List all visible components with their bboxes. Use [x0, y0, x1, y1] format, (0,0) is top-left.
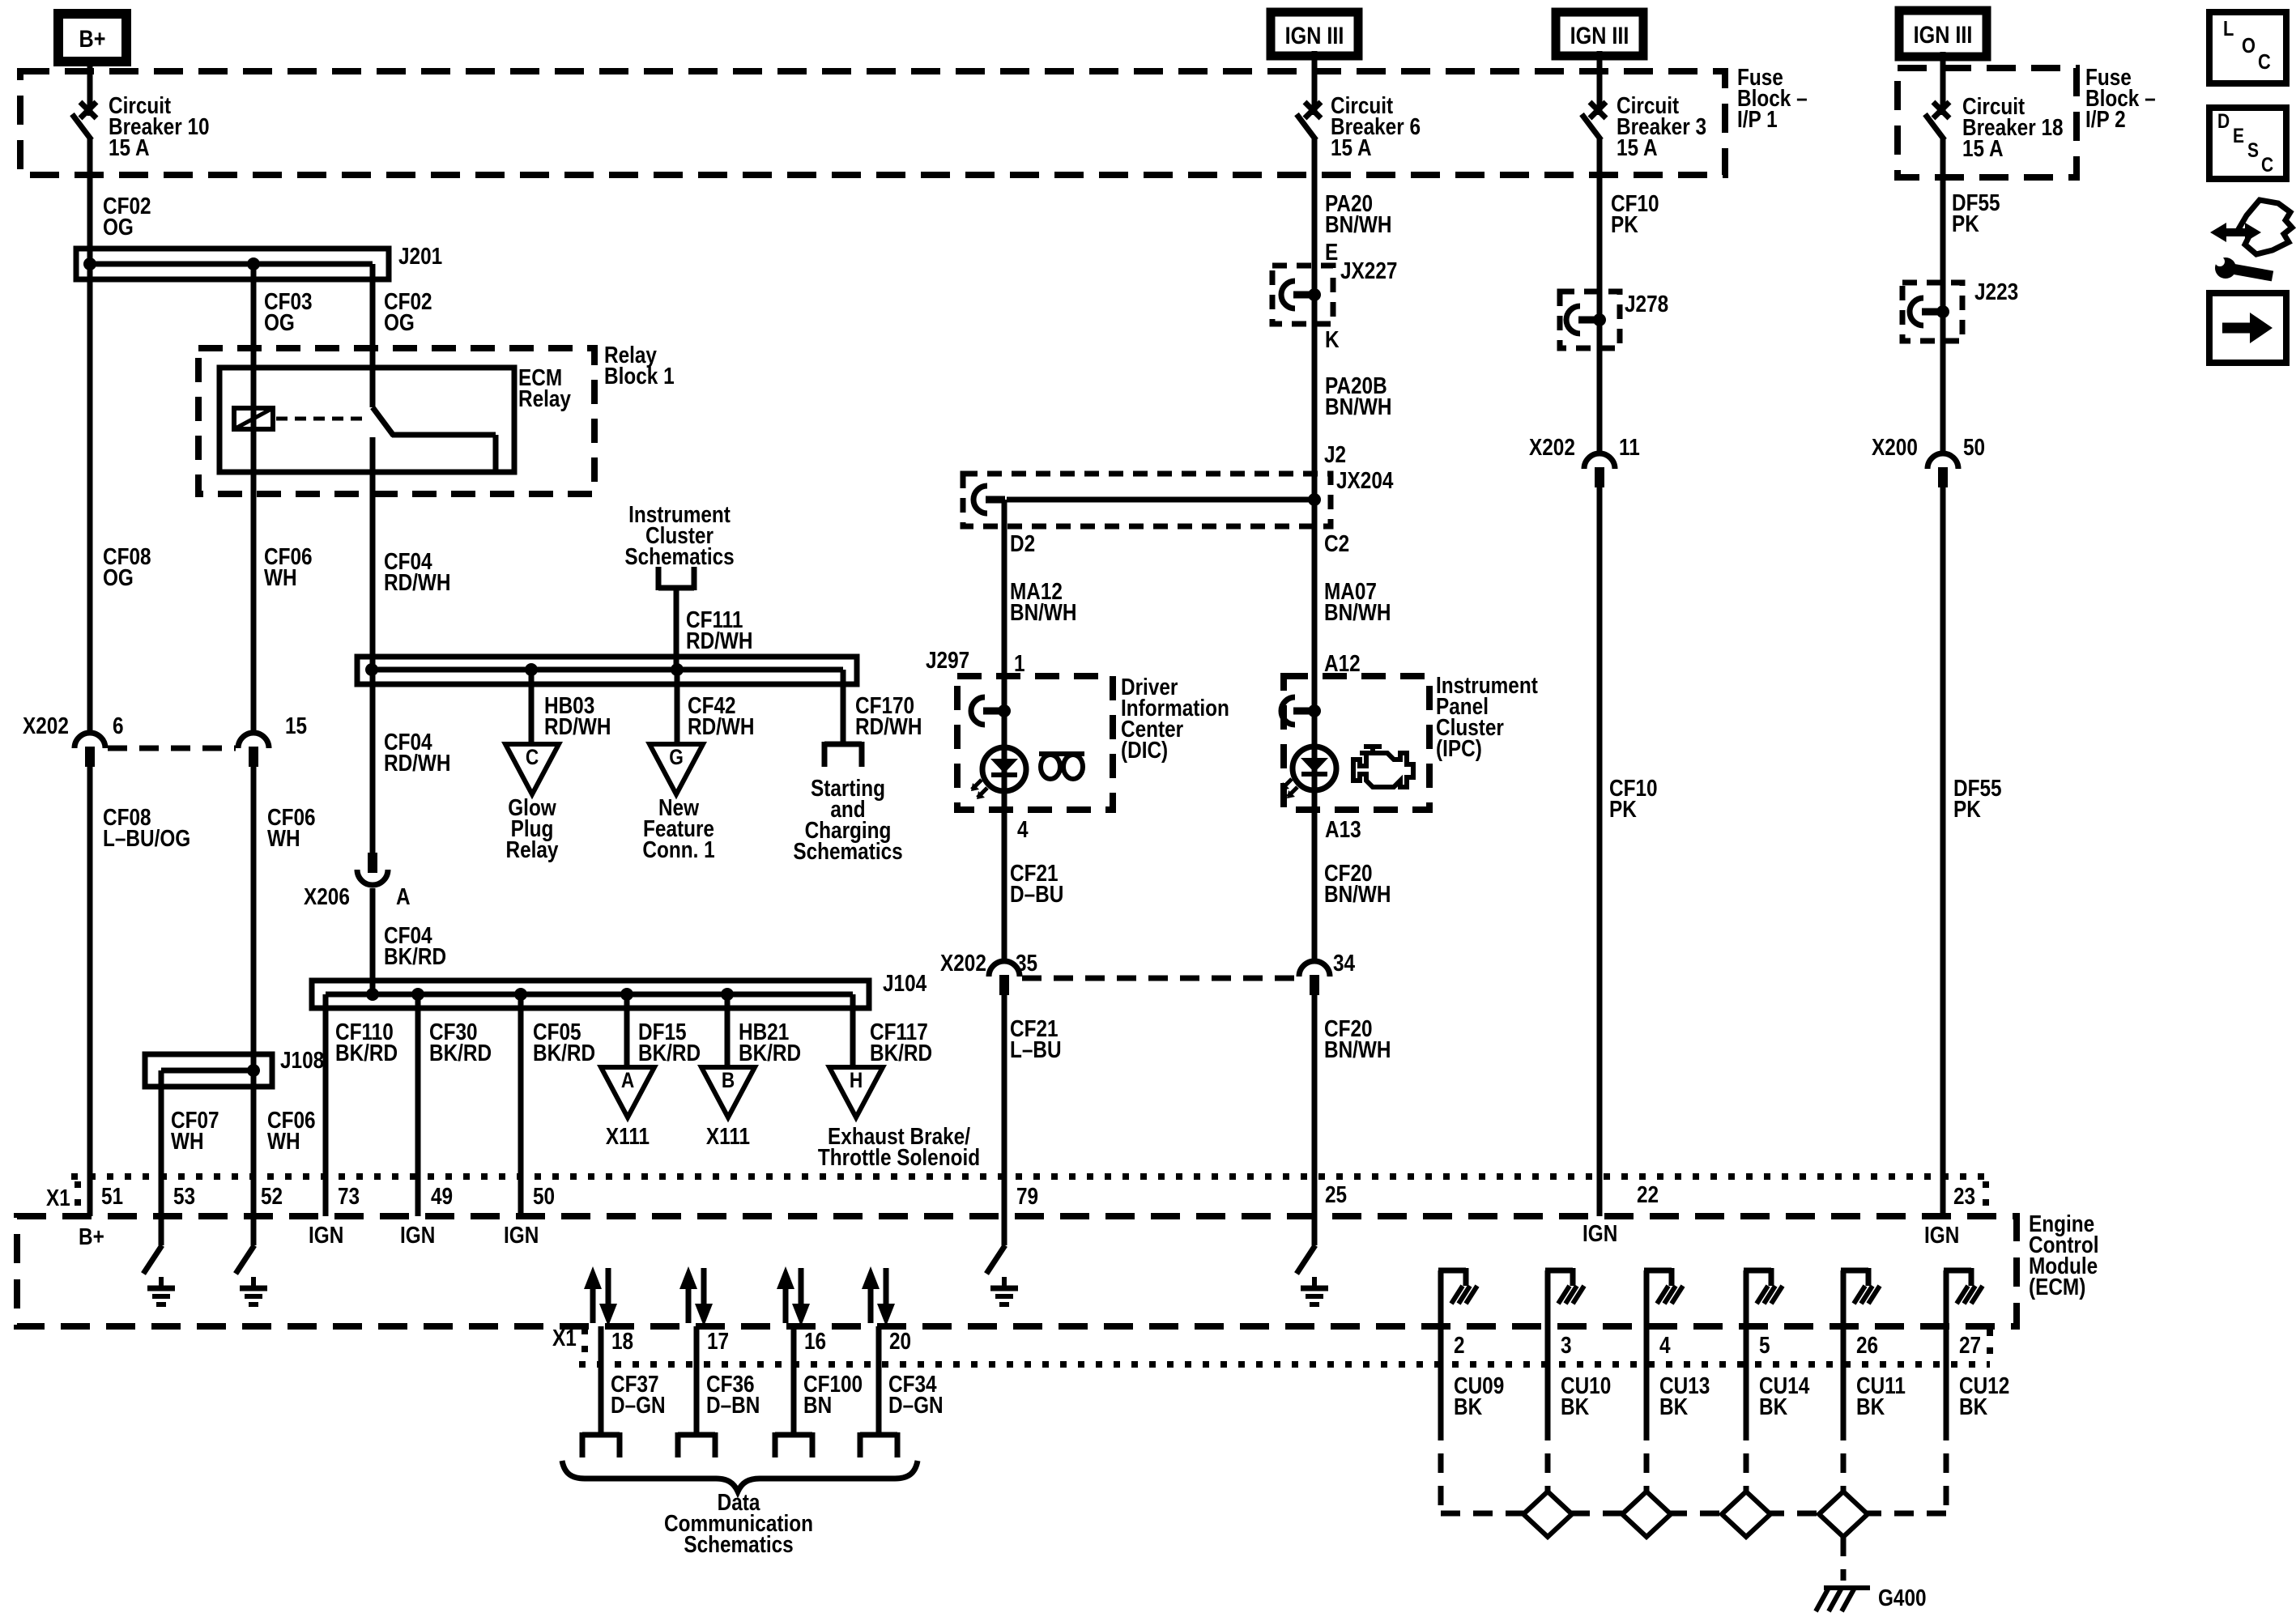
svg-text:J201: J201	[398, 243, 442, 269]
svg-text:X202: X202	[23, 713, 69, 738]
svg-text:18: 18	[611, 1328, 633, 1354]
connector JX204 left end	[973, 486, 1005, 513]
chassis ground pin 3	[1545, 1268, 1584, 1326]
svg-text:BK: BK	[1561, 1394, 1590, 1419]
relay coil box	[234, 408, 273, 429]
svg-text:79: 79	[1016, 1183, 1038, 1209]
svg-text:X111: X111	[606, 1123, 650, 1149]
junction box J201	[76, 249, 389, 279]
svg-text:IGN: IGN	[309, 1222, 343, 1248]
dotted jog X1 bottom right	[1987, 1330, 1993, 1361]
svg-text:A: A	[621, 1068, 634, 1092]
junction box J297	[357, 657, 857, 684]
dashed splice bus	[1441, 1511, 1946, 1517]
dashed link X202 6-15	[108, 746, 236, 751]
junction box JX204 dashed	[963, 474, 1331, 526]
wire CF10 breaker 3 to X202-11	[1597, 138, 1603, 453]
svg-text:BK: BK	[1454, 1394, 1483, 1419]
LED indicator DIC	[971, 747, 1026, 799]
circuit breaker CB3	[1582, 102, 1606, 140]
svg-text:(ECM): (ECM)	[2029, 1274, 2085, 1300]
dashed wire CU13	[1644, 1421, 1650, 1495]
svg-text:IGN III: IGN III	[1914, 21, 1973, 49]
svg-text:WH: WH	[171, 1128, 204, 1154]
svg-text:RD/WH: RD/WH	[855, 713, 922, 739]
JX204 bus wire	[1007, 497, 1314, 503]
svg-text:L: L	[2223, 17, 2234, 40]
dashed wire CU10	[1545, 1421, 1551, 1495]
wire CF08 L-BU/OG to ECM pin 51	[87, 767, 93, 1216]
junction dot J108-CF06	[247, 1064, 260, 1077]
svg-text:OG: OG	[384, 309, 415, 335]
svg-text:15: 15	[285, 713, 307, 738]
relay switch output notch horizontal	[392, 432, 496, 438]
J297 bus wire	[372, 667, 843, 673]
svg-text:4: 4	[1659, 1332, 1671, 1358]
wire CF30 J104 to ECM pin 49	[415, 994, 421, 1216]
svg-text:X202: X202	[1529, 434, 1575, 460]
bidirectional arrows pin 16	[777, 1266, 810, 1326]
wire DF55 breaker 18 to X200-50	[1940, 138, 1946, 453]
wire CF170 J297 drop	[841, 670, 846, 744]
svg-text:J2: J2	[1324, 441, 1346, 467]
svg-text:IGN III: IGN III	[1285, 22, 1344, 49]
terminator CF34	[860, 1432, 897, 1457]
chassis ground pin 5	[1744, 1268, 1783, 1326]
svg-text:X1: X1	[46, 1185, 70, 1211]
svg-text:26: 26	[1856, 1332, 1878, 1358]
svg-text:BN: BN	[803, 1392, 832, 1418]
svg-text:3: 3	[1561, 1332, 1572, 1358]
svg-text:15 A: 15 A	[1962, 135, 2004, 161]
svg-text:WH: WH	[267, 1128, 300, 1154]
nav icon hand with wrench	[2210, 200, 2292, 279]
svg-text:H: H	[850, 1068, 863, 1092]
circuit breaker CB6	[1297, 102, 1321, 140]
ground switch and ground pin 25	[1297, 1216, 1328, 1304]
svg-text:PK: PK	[1609, 796, 1637, 822]
junction dot J297-HB03	[525, 663, 538, 676]
junction dot J104-DF15	[620, 988, 633, 1001]
svg-text:(DIC): (DIC)	[1121, 737, 1168, 763]
dotted jog X1 bottom left	[581, 1328, 588, 1361]
svg-text:20: 20	[889, 1328, 911, 1354]
brace data communication	[562, 1461, 918, 1491]
power symbol B+ box	[58, 14, 126, 62]
svg-text:J108: J108	[280, 1047, 324, 1073]
connector triangle A X111	[601, 1067, 654, 1117]
dashed wire CU11	[1841, 1421, 1847, 1495]
bidirectional arrows pin 20	[862, 1266, 895, 1326]
junction dot J104-HB21	[721, 988, 734, 1001]
power symbol IGN III box 3	[1899, 11, 1987, 57]
wire HB03 J297 to triangle C	[529, 670, 535, 744]
dotted jog X1 right	[1983, 1181, 1989, 1213]
svg-text:L–BU: L–BU	[1010, 1036, 1062, 1062]
splice diamond 1	[1523, 1491, 1572, 1537]
svg-text:PK: PK	[1611, 211, 1638, 237]
wire B+ to breaker 10	[87, 57, 93, 116]
svg-text:Schematics: Schematics	[624, 543, 734, 569]
dashed wire CU12	[1944, 1421, 1949, 1513]
chassis ground pin 27	[1944, 1268, 1983, 1326]
connector triangle C glow plug relay	[505, 744, 559, 794]
wire PA20 breaker 6 to X202-34	[1312, 138, 1318, 962]
wire CF111 to J297	[674, 588, 679, 670]
svg-text:D2: D2	[1010, 530, 1035, 556]
svg-text:K: K	[1325, 326, 1340, 352]
relay switch blade	[373, 407, 394, 436]
svg-text:J297: J297	[926, 647, 969, 673]
dashed link X202 35-34	[1022, 976, 1297, 981]
svg-text:53: 53	[173, 1183, 195, 1209]
svg-text:Block 1: Block 1	[604, 363, 675, 389]
svg-text:BN/WH: BN/WH	[1324, 881, 1391, 907]
junction dot J104-CF30	[411, 988, 424, 1001]
wire CF10 to ECM pin 22	[1597, 487, 1603, 1216]
LED indicator IPC	[1281, 747, 1336, 798]
svg-text:11: 11	[1619, 434, 1640, 460]
svg-text:D–GN: D–GN	[611, 1392, 666, 1418]
terminator CF37	[582, 1432, 620, 1457]
connector DIC pin 1	[971, 697, 1011, 725]
svg-text:IGN: IGN	[504, 1222, 539, 1248]
svg-text:16: 16	[804, 1328, 826, 1354]
junction box J223 dashed	[1902, 283, 1962, 341]
connector triangle B X111	[701, 1067, 755, 1117]
svg-text:IGN III: IGN III	[1570, 22, 1629, 49]
svg-text:52: 52	[261, 1183, 283, 1209]
wire IGN III to breaker 3	[1597, 51, 1603, 115]
svg-text:Schematics: Schematics	[793, 838, 902, 864]
chassis ground pin 26	[1841, 1268, 1880, 1326]
wire CF07 J108 to ECM pin 53	[159, 1070, 164, 1216]
connector X200 pin 50	[1928, 453, 1958, 487]
wire CF05 J104 to ECM pin 50	[518, 994, 524, 1216]
wire CF117 J104 to triangle H	[850, 994, 856, 1067]
svg-text:BN/WH: BN/WH	[1325, 211, 1391, 237]
relay switch output notch vertical	[493, 435, 499, 472]
svg-text:(IPC): (IPC)	[1436, 735, 1482, 761]
svg-text:BK: BK	[1659, 1394, 1689, 1419]
connector IPC pin A12	[1281, 697, 1321, 725]
dashed wire CU09	[1438, 1421, 1444, 1513]
svg-text:C: C	[526, 745, 539, 769]
bidirectional arrows pin 17	[679, 1266, 713, 1326]
svg-text:D–BN: D–BN	[706, 1392, 760, 1418]
svg-text:15 A: 15 A	[1617, 134, 1658, 160]
svg-text:73: 73	[338, 1183, 360, 1209]
junction box J278 dashed	[1560, 291, 1620, 348]
svg-text:X200: X200	[1872, 434, 1918, 460]
coil icon DIC	[1039, 754, 1084, 779]
circuit breaker CB10	[72, 102, 96, 140]
svg-text:1: 1	[1014, 650, 1025, 676]
ground G400	[1816, 1588, 1870, 1611]
svg-text:PK: PK	[1953, 796, 1981, 822]
wire IGN III to breaker 6	[1312, 51, 1318, 115]
J108 bus wire	[161, 1068, 253, 1074]
wire CF04 BK/RD X206 to J104	[370, 888, 376, 994]
connector X206 pin A	[357, 853, 388, 885]
nav arrow	[2222, 313, 2273, 343]
svg-text:A12: A12	[1324, 650, 1361, 676]
svg-text:C: C	[2258, 50, 2271, 74]
chassis ground pin 2	[1438, 1268, 1477, 1326]
svg-text:OG: OG	[264, 309, 295, 335]
svg-text:BK: BK	[1759, 1394, 1788, 1419]
connector triangle G new feature	[650, 744, 703, 794]
fuse block I/P 2 dashed box	[1898, 68, 2077, 177]
svg-text:G400: G400	[1878, 1585, 1927, 1611]
svg-text:22: 22	[1637, 1181, 1659, 1207]
wire DF55 to ECM pin 23	[1940, 487, 1946, 1216]
svg-text:B+: B+	[79, 1223, 104, 1249]
connector X202 pin 6	[75, 733, 105, 767]
svg-text:4: 4	[1017, 816, 1029, 842]
junction dot J104-CF04	[366, 988, 379, 1001]
svg-text:L–BU/OG: L–BU/OG	[103, 825, 190, 851]
svg-text:Schematics: Schematics	[684, 1531, 793, 1557]
nav icon LOC box	[2209, 12, 2286, 83]
terminator CF100	[775, 1432, 812, 1457]
wire CU09 pin 2	[1438, 1326, 1444, 1421]
svg-text:BK: BK	[1856, 1394, 1885, 1419]
svg-text:WH: WH	[267, 825, 300, 851]
svg-text:O: O	[2242, 34, 2256, 57]
fuse block I/P 1 dashed box	[20, 71, 1725, 175]
wire CF04 through J297	[370, 657, 376, 684]
wire HB21 J104 to triangle B	[725, 994, 731, 1067]
wire CF36 pin 17	[694, 1326, 700, 1435]
wire CF34 pin 20	[876, 1326, 882, 1435]
svg-text:A13: A13	[1325, 816, 1361, 842]
connector JX227	[1281, 281, 1321, 309]
svg-text:E: E	[1325, 239, 1338, 265]
wire CF100 pin 16	[791, 1326, 797, 1435]
junction box J108	[145, 1054, 272, 1087]
svg-text:BK/RD: BK/RD	[533, 1040, 595, 1066]
svg-text:BN/WH: BN/WH	[1325, 394, 1391, 419]
svg-text:BK/RD: BK/RD	[384, 943, 446, 969]
svg-text:23: 23	[1953, 1183, 1975, 1209]
junction dot J297-CF42	[671, 663, 684, 676]
wire CF37 pin 18	[598, 1326, 604, 1435]
svg-text:51: 51	[101, 1183, 123, 1209]
svg-text:50: 50	[1963, 434, 1985, 460]
junction dot JX204-J2	[1308, 493, 1321, 506]
connector X202 pin 15	[238, 733, 269, 767]
svg-text:RD/WH: RD/WH	[688, 713, 754, 739]
svg-text:Relay: Relay	[518, 385, 571, 411]
wire CF02 J201 to relay switch	[370, 264, 376, 407]
junction dot J104-CF05	[514, 988, 527, 1001]
svg-text:JX227: JX227	[1340, 257, 1397, 283]
svg-text:IGN: IGN	[400, 1222, 435, 1248]
svg-text:B: B	[722, 1068, 735, 1092]
svg-text:15 A: 15 A	[109, 134, 150, 160]
svg-text:C: C	[2261, 153, 2273, 176]
chassis ground pin 4	[1644, 1268, 1683, 1326]
relay coil dashed link	[276, 417, 366, 421]
wire CU13 pin 4	[1644, 1326, 1650, 1421]
svg-text:IGN: IGN	[1924, 1222, 1959, 1248]
wire DF15 J104 to triangle A	[624, 994, 630, 1067]
J201 bus wire	[84, 262, 373, 267]
terminator starting and charging	[824, 742, 862, 767]
ECM dashed box	[17, 1216, 2017, 1326]
svg-text:49: 49	[431, 1183, 453, 1209]
svg-text:D–BU: D–BU	[1010, 881, 1063, 907]
ground switch and ground pin 52	[236, 1216, 267, 1304]
dotted connector row X1 top	[71, 1173, 1986, 1180]
junction box JX227 dashed	[1272, 266, 1333, 324]
relay coil diagonal	[234, 408, 273, 429]
svg-text:BN/WH: BN/WH	[1010, 599, 1076, 625]
dotted jog X1 left	[75, 1181, 81, 1213]
relay block 1 dashed box	[198, 348, 594, 494]
power symbol IGN III box 2	[1556, 12, 1643, 56]
wire CU12 pin 27	[1944, 1326, 1949, 1421]
junction box J104	[312, 981, 869, 1008]
svg-text:OG: OG	[103, 564, 134, 590]
wire CF110 J104 to ECM pin 73	[323, 994, 329, 1216]
splice diamond 4	[1819, 1491, 1868, 1537]
svg-text:BK/RD: BK/RD	[739, 1040, 801, 1066]
svg-text:J104: J104	[883, 970, 926, 996]
svg-text:B+: B+	[79, 25, 106, 53]
terminator instrument cluster schematics	[658, 567, 694, 590]
engine icon IPC	[1353, 747, 1413, 787]
connector J223	[1910, 298, 1949, 326]
svg-text:RD/WH: RD/WH	[384, 750, 450, 776]
svg-text:6: 6	[113, 713, 124, 738]
nav icon DESC box	[2209, 108, 2286, 179]
nav icon arrow box	[2209, 293, 2286, 363]
svg-text:2: 2	[1454, 1332, 1465, 1358]
wire CF02 breaker to J201	[87, 138, 93, 264]
svg-text:JX204: JX204	[1336, 467, 1394, 493]
ground switch and ground pin 53	[143, 1216, 175, 1304]
svg-text:A: A	[396, 883, 411, 909]
connector X202 pin 11	[1584, 453, 1615, 487]
wire CU11 pin 26	[1841, 1326, 1847, 1421]
DIC dashed box	[957, 676, 1113, 810]
terminator CF36	[678, 1432, 715, 1457]
wire CF04 relay to X206	[370, 437, 376, 853]
ECM relay rectangle	[219, 368, 514, 472]
svg-text:WH: WH	[264, 564, 297, 590]
svg-text:E: E	[2233, 124, 2244, 147]
svg-text:PK: PK	[1952, 211, 1979, 236]
ground switch and ground pin 79	[986, 1216, 1018, 1304]
svg-text:BN/WH: BN/WH	[1324, 599, 1391, 625]
svg-text:OG: OG	[103, 214, 134, 240]
J104 bus wire	[326, 992, 853, 998]
connector J278	[1566, 306, 1606, 334]
svg-text:X111: X111	[706, 1123, 750, 1149]
dashed wire CU14	[1744, 1421, 1749, 1495]
wire CF03 J201 through relay to X202-15	[251, 264, 257, 734]
wire IGN III to breaker 18	[1940, 52, 1946, 115]
svg-text:J278: J278	[1625, 291, 1668, 317]
svg-text:RD/WH: RD/WH	[544, 713, 611, 739]
svg-text:BK/RD: BK/RD	[870, 1040, 932, 1066]
svg-text:BK: BK	[1959, 1394, 1988, 1419]
power symbol IGN III box 1	[1271, 12, 1358, 56]
splice diamond 3	[1722, 1491, 1770, 1537]
wire CF21 to ECM pin 79	[1002, 995, 1007, 1216]
circuit breaker CB18	[1925, 102, 1949, 140]
dashed wire to G400	[1841, 1537, 1847, 1581]
junction dot J201-CF03	[247, 257, 260, 270]
wire CF20 to ECM pin 25	[1312, 995, 1318, 1216]
wire MA12 JX204 to X202-35	[1002, 500, 1007, 962]
wire CF42 J297 to triangle G	[675, 670, 680, 744]
junction dot J201-CF08	[83, 257, 96, 270]
svg-text:Throttle Solenoid: Throttle Solenoid	[818, 1144, 980, 1170]
svg-text:5: 5	[1759, 1332, 1770, 1358]
IPC dashed box	[1284, 676, 1429, 810]
svg-text:S: S	[2247, 138, 2259, 161]
svg-text:17: 17	[707, 1328, 729, 1354]
svg-text:D: D	[2217, 109, 2230, 132]
junction dot J297-CF04	[365, 663, 378, 676]
svg-text:50: 50	[533, 1183, 555, 1209]
svg-text:D–GN: D–GN	[888, 1392, 944, 1418]
dotted connector row X1 bottom	[579, 1361, 1990, 1368]
svg-text:J223: J223	[1974, 279, 2018, 304]
wire CF08 J201 to X202-6	[87, 264, 93, 734]
splice diamond 2	[1622, 1491, 1671, 1537]
svg-text:G: G	[669, 745, 684, 769]
svg-text:I/P 2: I/P 2	[2085, 106, 2126, 132]
svg-text:X202: X202	[940, 950, 986, 976]
svg-text:RD/WH: RD/WH	[686, 628, 752, 653]
svg-text:C2: C2	[1324, 530, 1349, 556]
connector X202 pin 34	[1299, 961, 1330, 995]
svg-text:BN/WH: BN/WH	[1324, 1036, 1391, 1062]
svg-text:15 A: 15 A	[1331, 134, 1372, 160]
svg-text:Relay: Relay	[506, 836, 559, 862]
wire CF06 to J108	[251, 767, 257, 1216]
wire CU10 pin 3	[1545, 1326, 1551, 1421]
connector triangle H exhaust brake	[829, 1067, 883, 1117]
svg-text:BK/RD: BK/RD	[429, 1040, 492, 1066]
svg-text:BK/RD: BK/RD	[335, 1040, 398, 1066]
connector X202 pin 35	[989, 961, 1020, 995]
wire CU14 pin 5	[1744, 1326, 1749, 1421]
svg-text:X1: X1	[552, 1325, 577, 1351]
svg-text:I/P 1: I/P 1	[1737, 106, 1778, 132]
svg-text:IGN: IGN	[1582, 1220, 1617, 1246]
svg-text:34: 34	[1333, 950, 1355, 976]
svg-text:X206: X206	[304, 883, 350, 909]
svg-text:RD/WH: RD/WH	[384, 569, 450, 595]
svg-text:27: 27	[1959, 1332, 1981, 1358]
svg-text:25: 25	[1325, 1181, 1347, 1207]
svg-text:BK/RD: BK/RD	[638, 1040, 701, 1066]
svg-text:Conn. 1: Conn. 1	[642, 836, 714, 862]
bidirectional arrows pin 18	[584, 1266, 617, 1326]
